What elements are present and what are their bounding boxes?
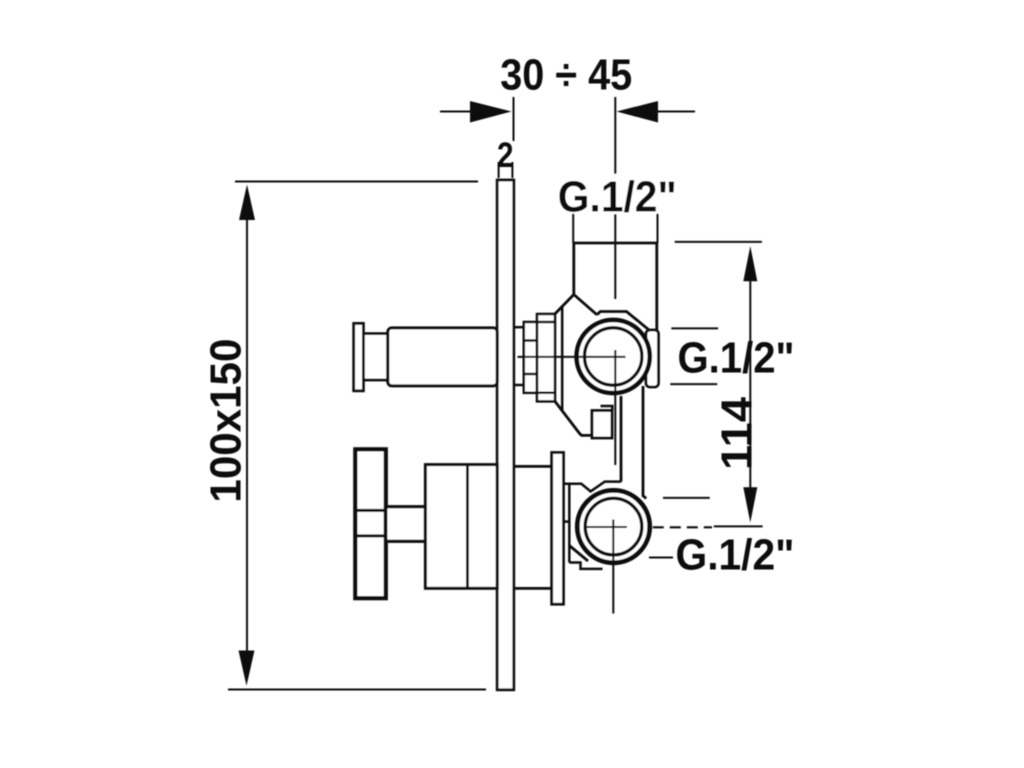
upper body top facet xyxy=(597,312,649,330)
hex nut large xyxy=(537,314,555,401)
ext tick below label left xyxy=(572,214,574,244)
upper port crosshair horizontal xyxy=(518,356,626,358)
upper body right cap xyxy=(646,330,659,387)
svg-text:114: 114 xyxy=(713,396,762,470)
cartridge neck xyxy=(363,334,387,380)
leader line to bottom label xyxy=(649,556,673,558)
upper port inner circle xyxy=(585,328,642,385)
upper body left facet vertical xyxy=(561,307,564,411)
svg-text:G.1/2": G.1/2" xyxy=(678,333,795,382)
down pipe left edge xyxy=(620,396,623,482)
wall plate xyxy=(497,180,514,690)
dim 114 arrow down xyxy=(743,487,757,522)
svg-text:30 ÷ 45: 30 ÷ 45 xyxy=(500,51,632,100)
dim 30÷45 extension/center line right xyxy=(614,97,616,299)
down pipe right edge xyxy=(643,386,646,499)
dim 114 bottom extension line xyxy=(714,525,763,527)
dim 30÷45 line left + arrow xyxy=(440,111,472,113)
dim 100x150 top extension line xyxy=(235,181,478,183)
dim 100x150 vertical line xyxy=(246,215,248,655)
handle cross line bottom xyxy=(355,534,386,537)
upper body peak slant left xyxy=(555,295,574,314)
dim 114 arrow up xyxy=(743,246,757,281)
ext tick below label right xyxy=(657,214,659,244)
svg-text:100x150: 100x150 xyxy=(202,339,251,503)
tick left of 2 xyxy=(498,162,500,178)
outlet stub tab xyxy=(601,406,613,411)
dim 30÷45 line right + arrow xyxy=(657,111,695,113)
connector line plate-nut top xyxy=(514,326,524,329)
lower body bottom step xyxy=(569,563,602,569)
body divider line xyxy=(466,465,469,589)
lower body bottom diagonal xyxy=(569,546,588,562)
lower port crosshair vertical xyxy=(612,520,614,614)
cartridge body xyxy=(388,328,497,386)
upper port crosshair vertical xyxy=(614,350,616,465)
upper port outer circle xyxy=(577,320,650,393)
port label G.1/2" top xyxy=(556,174,681,214)
hex nut small xyxy=(524,322,537,393)
connector line plate-nut bottom xyxy=(514,384,524,387)
cross handle xyxy=(355,449,386,598)
dim 114 vertical line xyxy=(749,278,751,490)
dim 30÷45 extension line left xyxy=(513,97,515,141)
handle stem xyxy=(386,507,426,542)
dim 100x150 arrow down xyxy=(239,651,255,686)
lower valve body xyxy=(425,465,497,589)
extension line above 114 bottom arrow xyxy=(663,497,710,499)
dim 100x150 bottom extension line xyxy=(228,689,486,691)
dashed center line lower port xyxy=(653,526,712,528)
ext line above middle label xyxy=(671,327,718,329)
lower body top profile xyxy=(564,482,622,492)
dim 114 top extension line xyxy=(675,241,762,243)
lower body divider short xyxy=(564,520,570,523)
tick right of 2 xyxy=(511,162,513,178)
lower port outer circle xyxy=(577,490,649,562)
svg-text:G.1/2": G.1/2" xyxy=(676,531,795,580)
lower port inner circle xyxy=(585,498,642,555)
ext line below middle label xyxy=(670,383,717,385)
upper body big diagonal xyxy=(555,402,592,436)
lower flange xyxy=(552,453,564,605)
upper body peak slant right xyxy=(574,295,597,315)
upper body outlet stub xyxy=(592,411,612,439)
svg-text:G.1/2": G.1/2" xyxy=(558,173,677,222)
body section right of plate bottom xyxy=(514,587,552,590)
dim 100x150 arrow up xyxy=(239,185,255,221)
inlet pipe top xyxy=(574,243,657,330)
handle cross line top xyxy=(355,509,386,512)
lower port crosshair horizontal xyxy=(587,526,627,528)
body section right of plate top xyxy=(514,465,552,468)
lower body left facet vertical xyxy=(568,484,571,563)
cartridge cap left xyxy=(354,323,364,390)
